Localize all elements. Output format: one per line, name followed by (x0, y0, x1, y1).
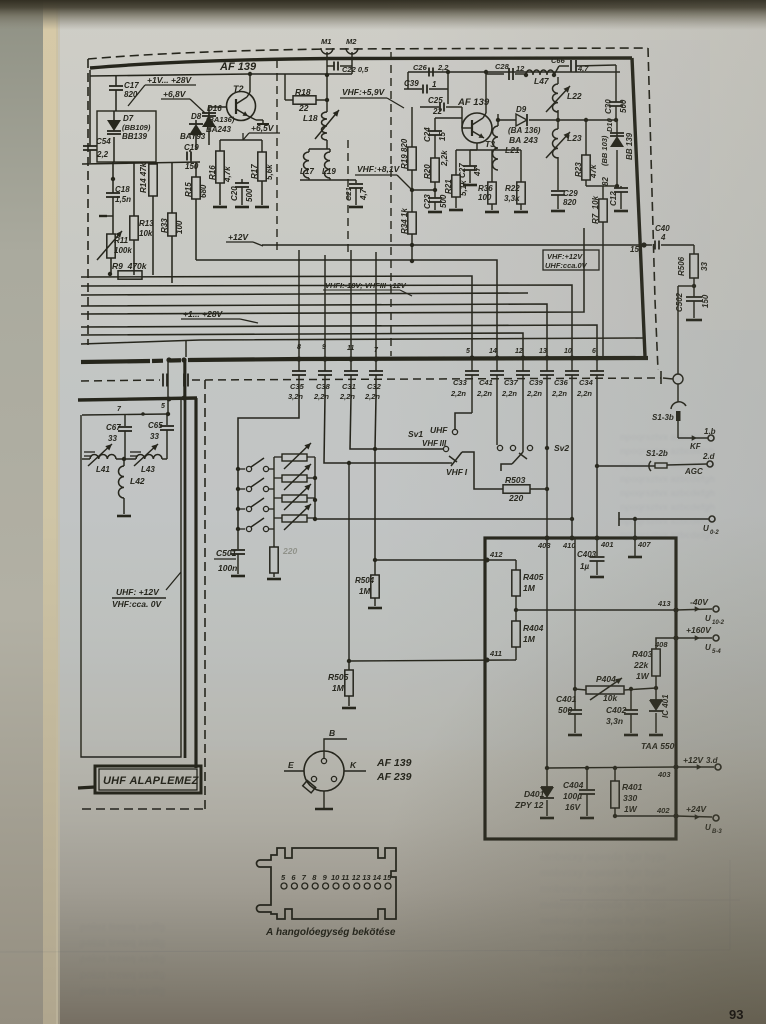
boxed label VHF +12V UHF cca0V (543, 250, 599, 270)
box 400 thick border (485, 538, 676, 839)
varicap D16 (208, 112, 210, 116)
node 403 right (673, 764, 678, 769)
connector pin holes (281, 883, 287, 889)
varicap D10 BB139 (616, 120, 618, 136)
dashed outer border left (87, 59, 89, 345)
bus line 5 y312 up x584 (81, 228, 584, 314)
capacitor C34 2,2n (596, 358, 598, 371)
capacitor C30 500 (615, 72, 617, 102)
riser x168 bus to node5 (167, 362, 169, 414)
line y260 R15 to pin14 (196, 260, 497, 356)
wire U0-2 (619, 518, 709, 520)
zener IC401 TAA550 (654, 686, 658, 690)
pin5 chain to UHF contact (455, 413, 472, 429)
resistor R22 3,3k (520, 150, 522, 182)
dashed bus bottom T end (660, 371, 662, 384)
capacitor C32 2,2n (375, 359, 377, 371)
capacitor C403 1u (596, 538, 598, 556)
inductor L47 (524, 73, 528, 77)
node 401 top (595, 536, 600, 541)
thin box left unit (81, 400, 181, 757)
wire osc top to L47 (486, 73, 504, 75)
ground C27 (463, 184, 477, 187)
long riser x349 (348, 463, 350, 661)
capacitor C40 4 (654, 241, 656, 250)
resistor R17 5,6k (258, 152, 266, 181)
resistor R505 1M (348, 661, 350, 670)
terminal -40V (676, 609, 712, 610)
capacitor C33 2,2n (471, 358, 473, 371)
svg-text:93: 93 (729, 1007, 743, 1022)
inductor L19 (329, 149, 331, 152)
node P404 left (573, 687, 577, 691)
wire L43 to C65 (162, 458, 167, 460)
ground R504 (368, 607, 382, 610)
terminal +12V 3.d (676, 766, 714, 768)
switch dots column (236, 467, 240, 471)
T3 base wire (461, 107, 463, 128)
node AGC tap (595, 464, 599, 468)
pinout tab (303, 780, 316, 792)
ground C402 (624, 734, 638, 737)
resistor R21 5,1k (455, 150, 457, 175)
capacitor C31 2,2n (350, 359, 352, 371)
wire KF out (678, 437, 708, 439)
dashed outer border right (648, 48, 658, 370)
thick lead left of label box (78, 787, 95, 788)
riser C31 to y449 (350, 397, 443, 449)
switch S1-3b (677, 384, 679, 402)
dashed outer border top (88, 48, 648, 59)
resistor R19 820 (411, 107, 413, 147)
wire top osc rail (408, 71, 620, 73)
ground 220 (267, 578, 281, 581)
cream page edge strip (43, 0, 58, 1024)
bus line 3 y293 up x528 (81, 293, 528, 295)
switch row 1 (238, 468, 245, 470)
riser x184 (183, 360, 185, 398)
ground IC401 (649, 734, 663, 737)
capacitor C22 0,5 (327, 65, 334, 67)
ground L42 (117, 515, 131, 518)
switch row 3 (238, 508, 245, 510)
ground R17 (255, 206, 269, 209)
pinout pin E (311, 776, 316, 781)
ground R22 (514, 211, 528, 214)
capacitor C501 100n (237, 529, 239, 549)
pin 9 riser (324, 255, 326, 359)
terminal +24V (676, 816, 712, 817)
thick vertical x185 (184, 360, 187, 758)
node 413 (673, 607, 678, 612)
node 403 top (545, 536, 550, 541)
resistor R20 (431, 158, 439, 182)
switch blade VHF I (449, 462, 452, 464)
capacitor C38 2,2n (324, 359, 326, 371)
wire 408 to R403 (656, 638, 676, 649)
T3 emitter wire (476, 143, 478, 150)
bus line 6 y325 to pin6 (81, 325, 597, 356)
capacitor C54 (83, 145, 97, 147)
Sv2 contacts (497, 445, 502, 450)
ground C23 (428, 211, 442, 214)
ground C29 (551, 210, 565, 213)
bus line 1 y276 to pin5 (81, 276, 470, 277)
chassis tick left of C18 (99, 215, 107, 217)
dashed border x205 (204, 380, 206, 809)
capacitor C12 82 (615, 184, 619, 188)
dashed divider x348 (347, 140, 349, 255)
capacitor C24 15 (434, 118, 436, 131)
dashed compartment divider x277 (276, 60, 278, 250)
wire C17 drop (115, 75, 117, 86)
node T2 collector on rail (248, 72, 252, 76)
node line 7 5 (82, 414, 168, 415)
wire D10 row (558, 119, 617, 121)
ground C21 (349, 206, 363, 209)
wire R504 node to 412 (375, 559, 487, 561)
dashed ground bus under caps (81, 380, 160, 381)
node R503 x547 (545, 487, 549, 491)
dashed border bottom y809 (82, 808, 205, 810)
capacitor C41 2,2n (496, 358, 498, 371)
capacitor C36 2,2n (571, 358, 573, 371)
transistor T3 (462, 113, 492, 143)
wire 402 row (615, 815, 676, 817)
node 408 (673, 635, 678, 640)
wire R11 to R9 node (110, 258, 112, 274)
wire left rail x90 (89, 70, 91, 146)
variable resistor bank 3 (282, 495, 307, 502)
ground C12 (614, 210, 628, 213)
pinout circle AF139 (304, 751, 344, 791)
left outer strip (0, 0, 43, 1024)
thick bus line (81, 361, 150, 362)
capacitor C19 150 (189, 150, 191, 152)
resistor R23 47k (585, 120, 587, 155)
pin 8 riser (298, 250, 300, 359)
ground C502 (686, 319, 702, 322)
thick vertical x196 (194, 398, 197, 764)
diode D8 BAY93 (195, 120, 197, 124)
node R506 bottom (693, 278, 695, 286)
wire C18 down (112, 197, 114, 234)
inductor L42 (118, 466, 124, 498)
bus line 8 y342 full width (81, 338, 644, 344)
bank right rail x315 (314, 457, 316, 519)
capacitor C402 3,3n (629, 687, 633, 691)
variable resistor bank 1 (282, 454, 307, 461)
resistor R13 10k (133, 162, 135, 216)
capacitor C29 820 (557, 157, 559, 190)
varicap diode D7 (113, 111, 115, 120)
pin 7 riser (375, 252, 377, 359)
capacitor C17 (109, 85, 123, 87)
faint table lines bottom right (0, 860, 740, 952)
wire to KF circle (678, 285, 694, 287)
capacitor C39 1 (404, 88, 422, 90)
inductor L17 (309, 148, 330, 150)
resistor R506 33 (693, 245, 695, 254)
capacitor C27 47 (469, 150, 471, 166)
capacitor C66 4,7 (554, 66, 559, 75)
resistor R404 1M (515, 610, 517, 621)
inductor L21 (497, 114, 499, 120)
capacitor C404 100u 16V (586, 768, 588, 789)
resistor R401 330 1W (614, 768, 616, 781)
node R505 (347, 659, 351, 663)
switch row 4 (238, 528, 245, 530)
capacitor C67 33 (124, 414, 126, 426)
thick shield border right (632, 58, 645, 356)
blue tint mid-page (60, 330, 766, 750)
resistor R7 10k (603, 185, 617, 187)
T3 collector wire (483, 113, 486, 118)
Sv2 blade (512, 452, 523, 464)
wire R16 R17 tops (219, 140, 221, 151)
T2 collector wire (247, 92, 250, 97)
variable inductor L22 (557, 77, 559, 84)
top dark scan band (0, 0, 766, 30)
bus line 7 y333 to pin12 (81, 333, 523, 356)
pinout bottom lead (323, 791, 325, 808)
node 410 top (570, 536, 575, 541)
ground C401 (568, 734, 582, 737)
potentiometer R11 (107, 234, 115, 258)
pinout pin K (331, 776, 336, 781)
wire C39 left down (407, 72, 409, 89)
wire base T2 (209, 106, 227, 108)
thick line y398 (78, 398, 197, 400)
thick bus junction dots (166, 357, 171, 362)
wire top rail y75 (90, 74, 352, 76)
wire VHFI to R503 (462, 452, 503, 489)
wire 412 to R405 (487, 559, 516, 561)
capacitor C401 500 (574, 689, 576, 710)
resistor R36 100 (491, 150, 493, 182)
node y519 on 410 riser (570, 517, 574, 521)
ground R505 (342, 707, 356, 710)
feedthrough circle (673, 374, 683, 384)
box UHF ALAPLEMEZ (194, 764, 197, 768)
T2 emitter chassis (248, 116, 256, 120)
stub bus8 to thick bus (185, 340, 187, 357)
thick shield border top (90, 58, 632, 68)
series capacitor in dashed bus 2 (183, 374, 185, 387)
node x349 y463 (347, 461, 351, 465)
ground D401 (540, 817, 554, 820)
variable resistor bank 4 (282, 515, 307, 522)
capacitor C39b 2,2n (546, 358, 548, 371)
resistor R18 22 (284, 74, 286, 100)
pin dots on thick bus (469, 355, 474, 360)
wire C54 to rail end (89, 150, 91, 163)
long rail y162 (82, 162, 200, 164)
box around D7 (97, 111, 156, 162)
resistor R15 680 (195, 162, 197, 177)
U0-2 feed bar (618, 512, 620, 526)
ghost print bleedthrough (620, 432, 715, 540)
dashed divider x391 (390, 52, 392, 356)
node x375 y449 (373, 447, 377, 451)
node 412 (485, 558, 490, 563)
capacitor C65 33 (166, 414, 168, 425)
zener D401 ZPY12 (546, 768, 548, 787)
wire y190 (412, 189, 435, 191)
variable inductor L41 (82, 458, 90, 460)
pin 11 riser (350, 250, 352, 359)
ground R21 (449, 209, 463, 212)
wire +12V rail y245 (262, 244, 652, 246)
capacitor C20 500 (241, 179, 243, 183)
wire 413 row (516, 609, 676, 611)
node 402 (673, 813, 678, 818)
bus line 4 y304 to pin13 (81, 304, 547, 356)
series capacitor in dashed bus 1 (162, 374, 164, 387)
ground C501 (231, 575, 245, 578)
capacitor C23 500 (434, 190, 436, 198)
ground C404 (580, 817, 594, 820)
variable inductor L43 (116, 458, 136, 460)
ground C403 (590, 576, 604, 579)
bus line 2 y285 to pin10 (81, 285, 572, 356)
capacitor C502 150 (693, 286, 695, 297)
riser C32 to R504 (375, 397, 376, 560)
resistor R33 100 (171, 162, 173, 213)
resistor 220 vertical (273, 545, 275, 547)
variable resistor bank 2 (282, 475, 307, 482)
wire C17 to box (115, 90, 117, 111)
resistor R34 1k (411, 190, 413, 212)
wire +12V rail in box (546, 538, 548, 768)
wire L17 L19 bottoms (300, 179, 356, 181)
node R19 bottom (410, 188, 414, 192)
capacitor C37 2,2n (522, 358, 524, 371)
wire 411 row (349, 660, 516, 661)
capacitor C21 4,7 (355, 180, 357, 183)
resistor R16 4,7k (216, 151, 224, 183)
riser C38 to y463 (324, 397, 449, 463)
junction dots y398 (167, 397, 172, 402)
node R34 on 12V rail (410, 243, 414, 247)
riser C35 to switch column (238, 397, 299, 529)
ground R16 (213, 206, 227, 209)
pinout pin B (321, 758, 326, 763)
node 407 top (633, 536, 638, 541)
resistor R504 1M (374, 560, 376, 575)
resistor R405 1M (515, 560, 517, 570)
node 411 (485, 658, 490, 663)
diode D9 (498, 119, 516, 121)
riser C41 to Sv2 (496, 397, 498, 445)
node L42 (122, 457, 126, 461)
capacitor C35 3,2n (298, 359, 300, 371)
bank left rail x274 (273, 457, 275, 545)
wire y519 to node 410 riser (315, 518, 574, 520)
capacitor C18 (112, 162, 114, 193)
node 15 (641, 242, 646, 247)
connector outline (257, 848, 397, 919)
terminal +160V (676, 637, 712, 639)
ground C20 (235, 206, 249, 209)
resistor R403 22k 1W (652, 649, 660, 676)
variable inductor L23 (557, 110, 559, 129)
switch row 2 (238, 488, 245, 490)
resistor R14 47k (152, 162, 154, 164)
wire 407 down (634, 519, 636, 556)
ground R36 (485, 211, 499, 214)
node Sv2 on x547 (545, 446, 549, 450)
